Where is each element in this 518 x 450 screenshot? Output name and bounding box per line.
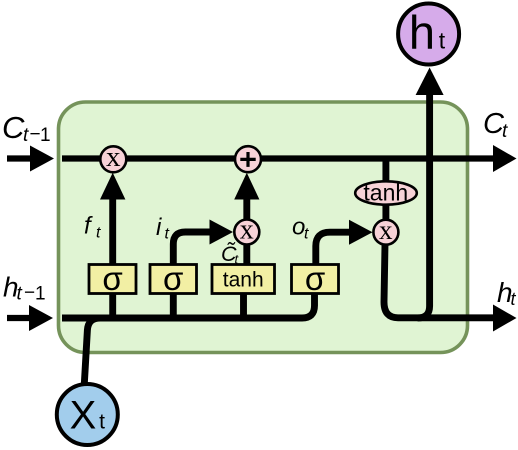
label it [156,214,170,243]
svg-text:t: t [99,411,105,434]
gate box sigma1 (forget gate) [89,260,136,297]
wire x2 arrow to plus [234,173,259,219]
svg-text:h: h [409,6,435,59]
svg-text:X: X [70,394,97,438]
node ht-1 label [3,272,46,305]
svg-text:σ: σ [102,260,122,297]
LSTM cell body box [59,102,468,353]
wire input-gate arrow to x2 [173,220,233,265]
node ht right label [497,277,517,309]
wire cell-state branch down to tanh ellipse [382,160,389,182]
wire ht-1 entry arrow [7,305,53,331]
svg-text:i: i [156,214,162,241]
svg-text:t: t [304,226,309,243]
svg-text:tanh: tanh [223,269,264,292]
op-circle x2 (input multiply) [234,215,259,246]
op-circle plus (cell update) [235,146,261,172]
svg-text:1: 1 [40,125,51,146]
svg-text:σ: σ [305,260,325,297]
label ot [292,214,309,243]
wire candidate stub x2 to tanh box [243,243,250,266]
svg-text:C: C [2,110,25,145]
wire candidate stub below tanh box [240,293,247,321]
gate box tanh (candidate) [212,265,275,294]
svg-text:tanh: tanh [363,180,408,206]
wire cell-state horizontal line [62,155,494,161]
wire xt input curve [84,318,100,384]
svg-text:−: − [30,124,41,145]
node Ct-1 label [2,110,51,146]
wire forget-gate stub below sigma1 [109,293,116,321]
svg-text:x: x [379,215,393,245]
svg-text:t: t [96,225,101,242]
node ht circle (output) [398,4,459,65]
svg-text:t: t [439,28,446,54]
op-circle x1 (forget multiply) [100,141,126,173]
wire Ct-1 entry arrow [7,146,54,172]
svg-text:σ: σ [163,260,183,297]
gate box sigma4 (output gate) [292,260,339,297]
svg-text:t: t [165,226,170,243]
gate box sigma2 (input gate) [150,260,197,297]
wire x3 output down and right to ht exit [384,244,494,318]
wire output-gate arrow to x3 [316,220,373,265]
svg-text:t: t [23,125,29,146]
node Ct label [483,108,508,142]
op-circle x3 (output multiply) [373,215,398,245]
op-ellipse tanh (output squash) [355,180,417,206]
label Ct tilde [221,241,240,267]
node xt circle (input) [57,384,118,445]
wire hidden-state bottom line [62,293,315,318]
svg-text:t: t [17,284,23,305]
label ft [84,213,101,242]
svg-text:t: t [502,121,508,142]
svg-text:x: x [106,141,121,173]
wire input-gate stub below sigma2 [170,293,177,321]
svg-text:t: t [511,289,517,309]
svg-text:−: − [24,283,35,304]
wire forget-gate arrow to x1 [100,173,125,265]
wire Ct exit arrowhead [493,145,517,172]
svg-text:x: x [240,215,254,246]
wire ht exit arrowhead [493,305,517,332]
wire tanh ellipse to x3 [382,203,389,221]
wire branch up to ht circle [416,68,444,319]
svg-text:1: 1 [35,284,46,305]
